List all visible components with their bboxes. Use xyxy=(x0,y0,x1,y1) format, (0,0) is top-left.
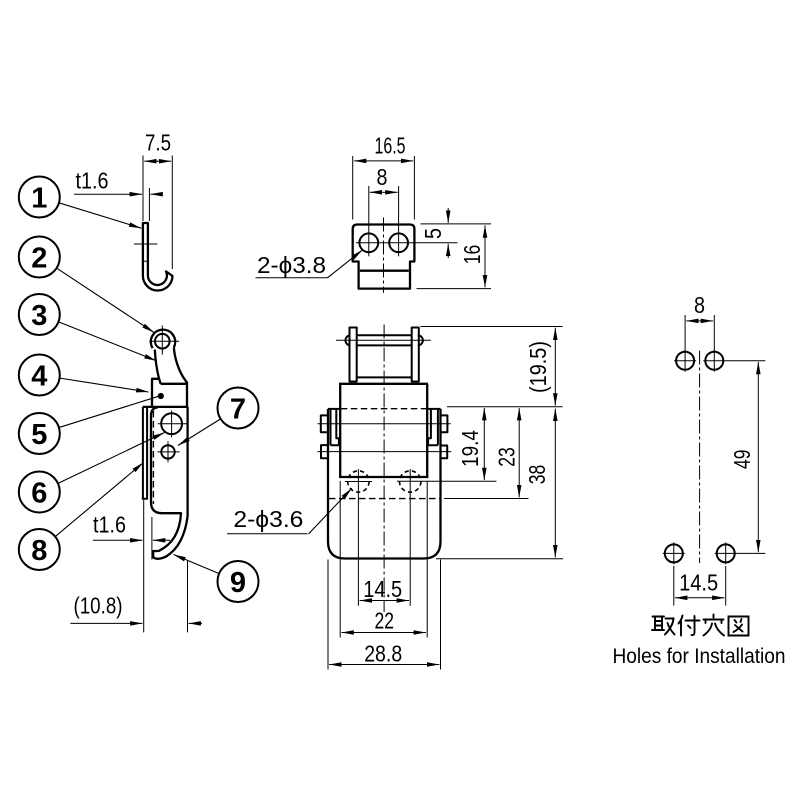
rivet dot xyxy=(158,393,164,399)
spring anchor tabs right xyxy=(441,415,448,432)
hole top-left xyxy=(676,352,694,370)
balloon 5 xyxy=(19,413,60,454)
leader 1 xyxy=(59,203,142,229)
hidden hole right (dashed) xyxy=(400,471,421,492)
leaf spring strip xyxy=(142,407,148,499)
svg-text:(10.8): (10.8) xyxy=(74,593,123,619)
svg-text:3: 3 xyxy=(31,300,47,332)
plate top edges xyxy=(328,408,339,410)
bottom hidden dashed line xyxy=(329,498,440,500)
leader 3 xyxy=(58,322,157,361)
hole right top view xyxy=(389,233,408,252)
bottom edge extension line xyxy=(417,288,492,290)
hole left top view xyxy=(359,233,378,252)
svg-text:Holes for Installation: Holes for Installation xyxy=(613,644,786,668)
latch body side view xyxy=(152,379,160,406)
keeper centerline tick xyxy=(134,243,157,245)
svg-text:2-ϕ3.8: 2-ϕ3.8 xyxy=(257,252,326,278)
dimension 8 lines xyxy=(686,320,699,322)
lever posts xyxy=(350,328,357,382)
dimension 16.5 lines xyxy=(354,160,384,162)
balloon 8 xyxy=(19,529,60,570)
hole vertical extension lines (8 dim) xyxy=(368,186,370,256)
balloon 1 xyxy=(19,177,60,218)
svg-text:t1.6: t1.6 xyxy=(76,167,109,193)
svg-text:(19.5): (19.5) xyxy=(525,341,551,393)
balloon 9 xyxy=(218,561,259,602)
dimension (10.8) lines xyxy=(70,622,142,624)
leader 6 xyxy=(58,433,165,484)
tab axis lines xyxy=(318,423,451,425)
hole center horizontal line xyxy=(356,242,458,244)
balloon 2 xyxy=(19,237,60,278)
keeper bend tick xyxy=(142,260,149,262)
svg-text:23: 23 xyxy=(494,447,520,467)
kanji 図 xyxy=(729,617,749,636)
dimension t1.6 (bottom) arrows xyxy=(93,539,143,541)
big hole side view xyxy=(161,413,182,434)
svg-text:16.5: 16.5 xyxy=(375,133,406,159)
leader 9 xyxy=(174,555,220,574)
plate and bottom hook outline xyxy=(151,407,188,559)
front view centerline xyxy=(383,325,385,613)
hole top-right xyxy=(705,352,723,370)
small hole crosshair xyxy=(157,451,179,453)
hole bottom-left xyxy=(665,544,683,562)
lever left edge xyxy=(155,350,161,384)
svg-text:4: 4 xyxy=(31,361,47,393)
installation centerline xyxy=(699,351,701,564)
pivot pin xyxy=(357,334,412,336)
dimension 8 arrows xyxy=(370,191,384,193)
lever bend line xyxy=(357,376,412,378)
bend hidden dashed line xyxy=(341,408,427,410)
keeper hook outline xyxy=(143,223,173,291)
spring leg left xyxy=(331,409,339,445)
balloon 6 xyxy=(19,472,60,513)
svg-text:49: 49 xyxy=(729,450,755,470)
pin end caps xyxy=(345,335,350,345)
leader 4 xyxy=(59,378,148,392)
svg-text:9: 9 xyxy=(230,567,246,599)
svg-text:7: 7 xyxy=(230,394,246,426)
top edge extension line xyxy=(421,223,492,225)
kanji 付 xyxy=(679,616,700,636)
dimension 7.5 lines xyxy=(144,160,158,162)
hole crosshair left xyxy=(345,481,372,483)
svg-text:14.5: 14.5 xyxy=(679,570,718,596)
right side extension lines xyxy=(421,326,563,328)
leader 2 xyxy=(56,268,154,333)
leader 8 xyxy=(55,463,144,537)
hidden hole left (dashed) xyxy=(348,471,369,492)
svg-text:14.5: 14.5 xyxy=(363,576,402,602)
lever pivot circle xyxy=(155,334,170,349)
big hole crosshair xyxy=(158,423,187,425)
lever knob outer arc xyxy=(151,330,175,349)
pin centerline xyxy=(336,339,431,341)
kanji 取 xyxy=(652,617,675,635)
svg-text:6: 6 xyxy=(31,478,47,510)
balloon 4 xyxy=(19,355,60,396)
body top edge xyxy=(339,383,428,385)
leader 7 xyxy=(178,419,221,446)
bend line xyxy=(360,270,409,272)
spring leg right xyxy=(428,409,438,445)
svg-text:38: 38 xyxy=(524,465,550,485)
body sides xyxy=(339,384,341,478)
svg-text:7.5: 7.5 xyxy=(145,130,171,156)
lever right edge xyxy=(174,347,187,383)
bottom extension lines xyxy=(339,481,341,638)
svg-text:19.4: 19.4 xyxy=(457,430,483,467)
hidden dashed line xyxy=(152,411,154,504)
balloon 7 xyxy=(218,388,259,429)
svg-text:1: 1 xyxy=(31,183,47,215)
svg-text:8: 8 xyxy=(694,292,705,318)
leader 5 (ends at rivet dot) xyxy=(58,396,160,428)
balloon 3 xyxy=(19,294,60,335)
top view body outline xyxy=(353,225,415,289)
svg-text:2-ϕ3.6: 2-ϕ3.6 xyxy=(233,506,303,532)
base plate outline xyxy=(328,409,441,559)
body bottom edge xyxy=(143,406,189,408)
dimension t1.6 (top) arrows xyxy=(74,193,142,195)
kanji 穴 xyxy=(704,615,725,636)
hole bottom-right xyxy=(717,544,735,562)
svg-text:5: 5 xyxy=(420,228,446,239)
spring anchor tabs left xyxy=(321,415,328,432)
svg-text:2: 2 xyxy=(31,243,47,275)
svg-text:5: 5 xyxy=(31,419,47,451)
svg-text:8: 8 xyxy=(31,535,47,567)
top view centerline xyxy=(383,218,385,293)
svg-text:8: 8 xyxy=(377,164,388,190)
svg-text:16: 16 xyxy=(459,245,485,265)
svg-text:t1.6: t1.6 xyxy=(93,512,126,538)
small hole side view xyxy=(161,445,174,458)
body bottom edge xyxy=(339,476,428,478)
svg-text:22: 22 xyxy=(375,608,395,634)
svg-text:28.8: 28.8 xyxy=(364,641,402,667)
caption kanji 取付穴図 xyxy=(652,615,749,636)
pivot crosshair xyxy=(149,340,179,342)
hole vertical lines xyxy=(357,469,359,606)
